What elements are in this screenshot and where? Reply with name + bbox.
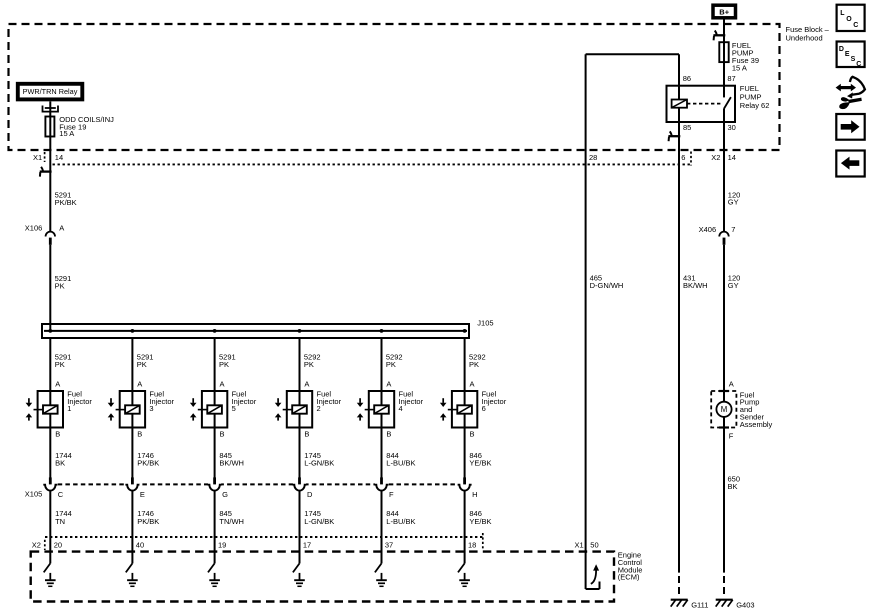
svg-text:PK/BK: PK/BK bbox=[55, 198, 77, 207]
svg-text:YE/BK: YE/BK bbox=[469, 517, 491, 526]
svg-text:4: 4 bbox=[399, 404, 403, 413]
svg-text:O: O bbox=[846, 16, 852, 23]
svg-text:G: G bbox=[222, 490, 228, 499]
svg-text:14: 14 bbox=[55, 153, 63, 162]
svg-text:A: A bbox=[220, 379, 225, 388]
svg-text:X406: X406 bbox=[699, 225, 717, 234]
svg-text:7: 7 bbox=[731, 225, 735, 234]
svg-text:L-BU/BK: L-BU/BK bbox=[386, 517, 415, 526]
svg-text:A: A bbox=[137, 379, 142, 388]
svg-text:TN: TN bbox=[55, 517, 65, 526]
svg-text:18: 18 bbox=[468, 540, 476, 549]
svg-text:40: 40 bbox=[136, 540, 144, 549]
svg-text:L: L bbox=[840, 10, 845, 17]
svg-text:BK/WH: BK/WH bbox=[219, 458, 244, 467]
svg-text:E: E bbox=[845, 51, 850, 58]
svg-text:X105: X105 bbox=[25, 490, 43, 499]
svg-text:YE/BK: YE/BK bbox=[469, 458, 491, 467]
svg-text:PK: PK bbox=[55, 360, 65, 369]
svg-text:PK/BK: PK/BK bbox=[137, 458, 159, 467]
svg-text:17: 17 bbox=[303, 540, 311, 549]
svg-text:6: 6 bbox=[482, 404, 486, 413]
svg-text:E: E bbox=[140, 490, 145, 499]
svg-text:2: 2 bbox=[317, 404, 321, 413]
svg-text:L-GN/BK: L-GN/BK bbox=[304, 458, 334, 467]
svg-text:C: C bbox=[853, 22, 858, 29]
svg-text:87: 87 bbox=[727, 74, 735, 83]
svg-text:X2: X2 bbox=[711, 153, 720, 162]
svg-text:20: 20 bbox=[54, 540, 62, 549]
svg-text:PK: PK bbox=[55, 282, 65, 291]
svg-text:PWR/TRN Relay: PWR/TRN Relay bbox=[23, 87, 78, 96]
svg-text:A: A bbox=[470, 379, 475, 388]
svg-text:J105: J105 bbox=[477, 318, 493, 327]
svg-text:B: B bbox=[137, 429, 142, 438]
svg-text:C: C bbox=[58, 490, 64, 499]
svg-text:H: H bbox=[472, 490, 477, 499]
svg-text:5: 5 bbox=[232, 404, 236, 413]
svg-text:6: 6 bbox=[681, 153, 685, 162]
svg-text:F: F bbox=[389, 490, 394, 499]
svg-text:Relay 62: Relay 62 bbox=[740, 101, 770, 110]
svg-text:G111: G111 bbox=[691, 600, 708, 609]
svg-text:A: A bbox=[386, 379, 391, 388]
svg-text:15 A: 15 A bbox=[732, 64, 747, 73]
svg-text:A: A bbox=[55, 379, 60, 388]
svg-text:D: D bbox=[307, 490, 313, 499]
svg-text:F: F bbox=[729, 431, 734, 440]
svg-text:30: 30 bbox=[728, 123, 736, 132]
svg-text:X1: X1 bbox=[33, 153, 42, 162]
svg-text:BK: BK bbox=[728, 482, 738, 491]
svg-text:S: S bbox=[851, 56, 856, 63]
svg-text:Underhood: Underhood bbox=[786, 33, 823, 42]
svg-text:A: A bbox=[729, 379, 734, 388]
svg-text:GY: GY bbox=[728, 281, 739, 290]
svg-text:C: C bbox=[856, 61, 861, 68]
svg-text:PK: PK bbox=[386, 360, 396, 369]
svg-text:28: 28 bbox=[589, 153, 597, 162]
svg-text:B+: B+ bbox=[719, 8, 729, 17]
svg-text:15 A: 15 A bbox=[59, 129, 74, 138]
svg-text:L-BU/BK: L-BU/BK bbox=[386, 458, 415, 467]
svg-text:PK: PK bbox=[469, 360, 479, 369]
svg-text:PK/BK: PK/BK bbox=[137, 517, 159, 526]
svg-text:X1: X1 bbox=[575, 541, 584, 550]
svg-text:B: B bbox=[386, 429, 391, 438]
svg-text:X2: X2 bbox=[32, 540, 41, 549]
svg-text:G403: G403 bbox=[736, 600, 754, 609]
svg-text:X106: X106 bbox=[25, 223, 43, 232]
svg-text:L-GN/BK: L-GN/BK bbox=[304, 517, 334, 526]
svg-text:M: M bbox=[721, 405, 728, 414]
svg-text:3: 3 bbox=[149, 404, 153, 413]
svg-text:A: A bbox=[304, 379, 309, 388]
svg-text:50: 50 bbox=[590, 541, 598, 550]
svg-text:GY: GY bbox=[728, 198, 739, 207]
svg-text:14: 14 bbox=[728, 153, 736, 162]
svg-text:(ECM): (ECM) bbox=[618, 573, 640, 582]
svg-text:A: A bbox=[59, 223, 64, 232]
svg-text:19: 19 bbox=[218, 540, 226, 549]
svg-text:PK: PK bbox=[219, 360, 229, 369]
svg-text:PK: PK bbox=[137, 360, 147, 369]
svg-text:85: 85 bbox=[683, 123, 691, 132]
svg-text:D-GN/WH: D-GN/WH bbox=[590, 281, 624, 290]
svg-text:37: 37 bbox=[385, 540, 393, 549]
svg-text:1: 1 bbox=[67, 404, 71, 413]
svg-text:D: D bbox=[839, 46, 844, 53]
svg-text:B: B bbox=[304, 429, 309, 438]
svg-text:BK: BK bbox=[55, 458, 65, 467]
svg-text:BK/WH: BK/WH bbox=[683, 281, 708, 290]
svg-text:Assembly: Assembly bbox=[740, 420, 773, 429]
svg-text:B: B bbox=[55, 429, 60, 438]
svg-text:PK: PK bbox=[304, 360, 314, 369]
svg-text:TN/WH: TN/WH bbox=[219, 517, 244, 526]
svg-text:86: 86 bbox=[683, 74, 691, 83]
svg-text:B: B bbox=[470, 429, 475, 438]
svg-text:B: B bbox=[220, 429, 225, 438]
